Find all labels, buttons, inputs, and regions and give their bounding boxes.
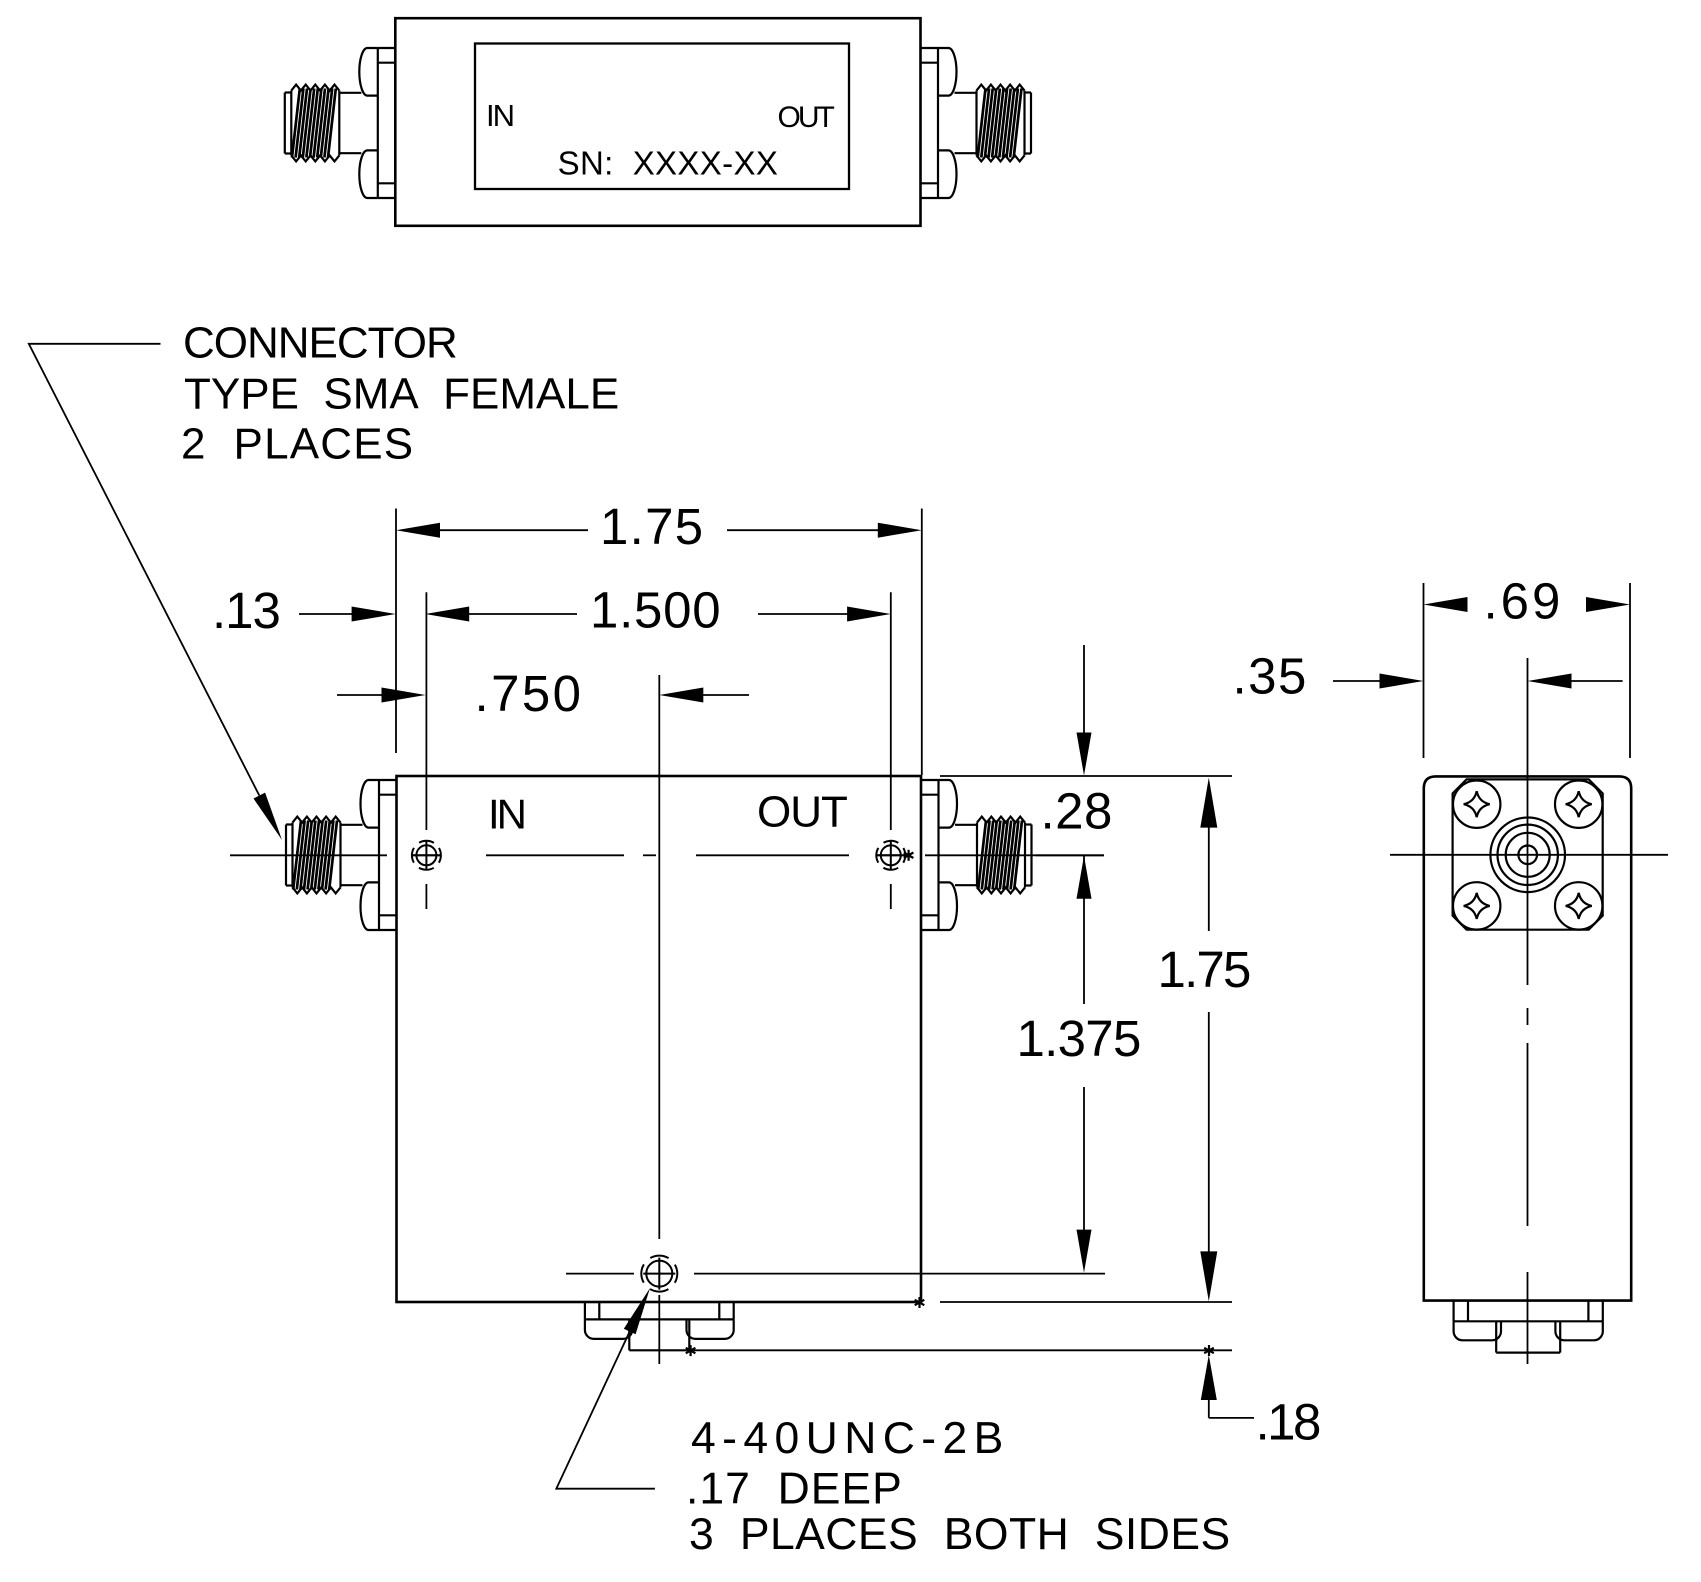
side view body xyxy=(1424,776,1631,1300)
bottom flange plate xyxy=(1452,1301,1454,1322)
svg-text:OUT: OUT xyxy=(757,788,847,837)
reference line top right xyxy=(940,775,1232,777)
reference line stub bottom xyxy=(689,1349,1232,1351)
center line (front view horizontal) xyxy=(230,854,387,856)
svg-text:.18: .18 xyxy=(1256,1393,1321,1450)
bottom flange ear left xyxy=(585,1319,632,1339)
screw top-left xyxy=(1453,781,1500,828)
dim 1.375: dimension line xyxy=(1083,1087,1085,1230)
arrowhead leader connector note xyxy=(254,793,283,840)
reference mark near right hole xyxy=(907,850,909,861)
arrowhead dim .13 xyxy=(352,607,396,622)
bottom flange notch lines xyxy=(598,1302,600,1319)
arrowhead dim 1.375 xyxy=(1077,1230,1092,1273)
SMA connector J1 (top view, left) xyxy=(285,48,396,198)
SMA jack end view xyxy=(1490,818,1565,893)
dim .28: dimension line xyxy=(1083,645,1085,733)
center line (side view vertical) xyxy=(1527,658,1529,985)
reference mark box bottom corner xyxy=(918,1297,920,1308)
svg-text:.17 DEEP: .17 DEEP xyxy=(686,1465,903,1514)
screw bottom-left xyxy=(1453,882,1500,929)
center line bottom hole horizontal xyxy=(566,1273,634,1275)
arrowheads dim 1.75 height xyxy=(1200,778,1217,828)
arrowheads dim .69 xyxy=(1424,597,1468,612)
SMA connector J2 (top view, right) xyxy=(921,48,1032,198)
bottom connector stub xyxy=(1495,1321,1497,1352)
svg-text:2 PLACES: 2 PLACES xyxy=(181,419,414,468)
arrowhead dim .18 xyxy=(1201,1355,1217,1400)
svg-text:SN: XXXX-XX: SN: XXXX-XX xyxy=(558,145,779,182)
reference mark at .18 xyxy=(1208,1345,1210,1356)
mounting hole right xyxy=(881,845,901,865)
thread hatch J1 (front view) xyxy=(293,821,337,890)
svg-text:1.75: 1.75 xyxy=(600,498,704,555)
svg-text:.35: .35 xyxy=(1233,647,1308,704)
bottom flange ear right xyxy=(687,1319,734,1339)
reference line box bottom right xyxy=(940,1301,1232,1303)
thread hatch J1 (top view) xyxy=(292,89,336,158)
reference line center right xyxy=(1036,854,1104,856)
svg-text:.13: .13 xyxy=(212,582,280,639)
dim 1.75 height: dimension line xyxy=(1208,819,1210,931)
bottom connector stub xyxy=(628,1319,630,1350)
svg-text:OUT: OUT xyxy=(778,101,835,134)
center line left hole vertical xyxy=(425,592,427,830)
center line right hole vertical xyxy=(890,592,892,830)
svg-text:1.375: 1.375 xyxy=(1017,1010,1141,1067)
top view body xyxy=(395,18,920,226)
center line (side view horizontal) xyxy=(1390,854,1668,856)
svg-text:IN: IN xyxy=(486,98,513,133)
front view body xyxy=(397,776,922,1302)
dim .35: dimension line xyxy=(1333,680,1380,682)
svg-text:.28: .28 xyxy=(1041,782,1113,839)
svg-text:3 PLACES BOTH SIDES: 3 PLACES BOTH SIDES xyxy=(689,1510,1231,1559)
bottom flange ear left xyxy=(1454,1321,1501,1340)
arrowheads dim 1.500 xyxy=(425,607,469,622)
thread hatch J2 (front view) xyxy=(978,821,1022,890)
svg-text:IN: IN xyxy=(488,790,524,837)
dim 1.500: dimension line xyxy=(448,613,577,615)
SMA connector J1 (front view, left) xyxy=(286,780,397,930)
reference mark stub corner xyxy=(689,1345,691,1356)
bottom flange plate xyxy=(584,1302,586,1319)
screw bottom-right xyxy=(1555,882,1602,929)
dim .18: dimension line and elbow xyxy=(1208,1400,1210,1418)
svg-text:4-40UNC-2B: 4-40UNC-2B xyxy=(691,1414,1010,1463)
svg-text:TYPE SMA FEMALE: TYPE SMA FEMALE xyxy=(184,370,619,419)
dim 1.75 width: extension lines xyxy=(395,509,397,754)
thread hatch J2 (top view) xyxy=(978,89,1022,158)
dim .750: dimension line xyxy=(337,694,384,696)
leader line connector note xyxy=(29,344,259,796)
mounting hole bottom xyxy=(646,1261,672,1287)
bottom flange notch lines xyxy=(1467,1301,1469,1322)
svg-text:.750: .750 xyxy=(475,665,584,722)
side view flange xyxy=(1453,779,1603,929)
dim 1.75 width: dimension line xyxy=(440,529,588,531)
mounting hole left xyxy=(416,845,436,865)
svg-text:CONNECTOR: CONNECTOR xyxy=(183,319,457,368)
dim .13: dimension line xyxy=(299,613,353,615)
top view label plate xyxy=(475,44,849,190)
svg-text:.69: .69 xyxy=(1484,572,1564,629)
leader line thread note xyxy=(556,1332,655,1489)
arrowheads dim .750 xyxy=(382,688,426,703)
arrowhead leader thread note xyxy=(624,1288,650,1334)
center line bottom hole vertical xyxy=(658,675,660,1239)
SMA connector J2 (front view, right) xyxy=(921,780,1032,930)
dim .69: extension lines xyxy=(1423,583,1425,758)
svg-text:1.75: 1.75 xyxy=(1158,941,1250,998)
arrowheads dim .28 xyxy=(1077,733,1092,776)
svg-text:1.500: 1.500 xyxy=(590,582,721,639)
arrowheads dim 1.75 width xyxy=(396,523,440,538)
screw top-right xyxy=(1555,781,1602,828)
arrowheads dim .35 xyxy=(1380,674,1424,689)
bottom flange ear right xyxy=(1555,1321,1602,1340)
